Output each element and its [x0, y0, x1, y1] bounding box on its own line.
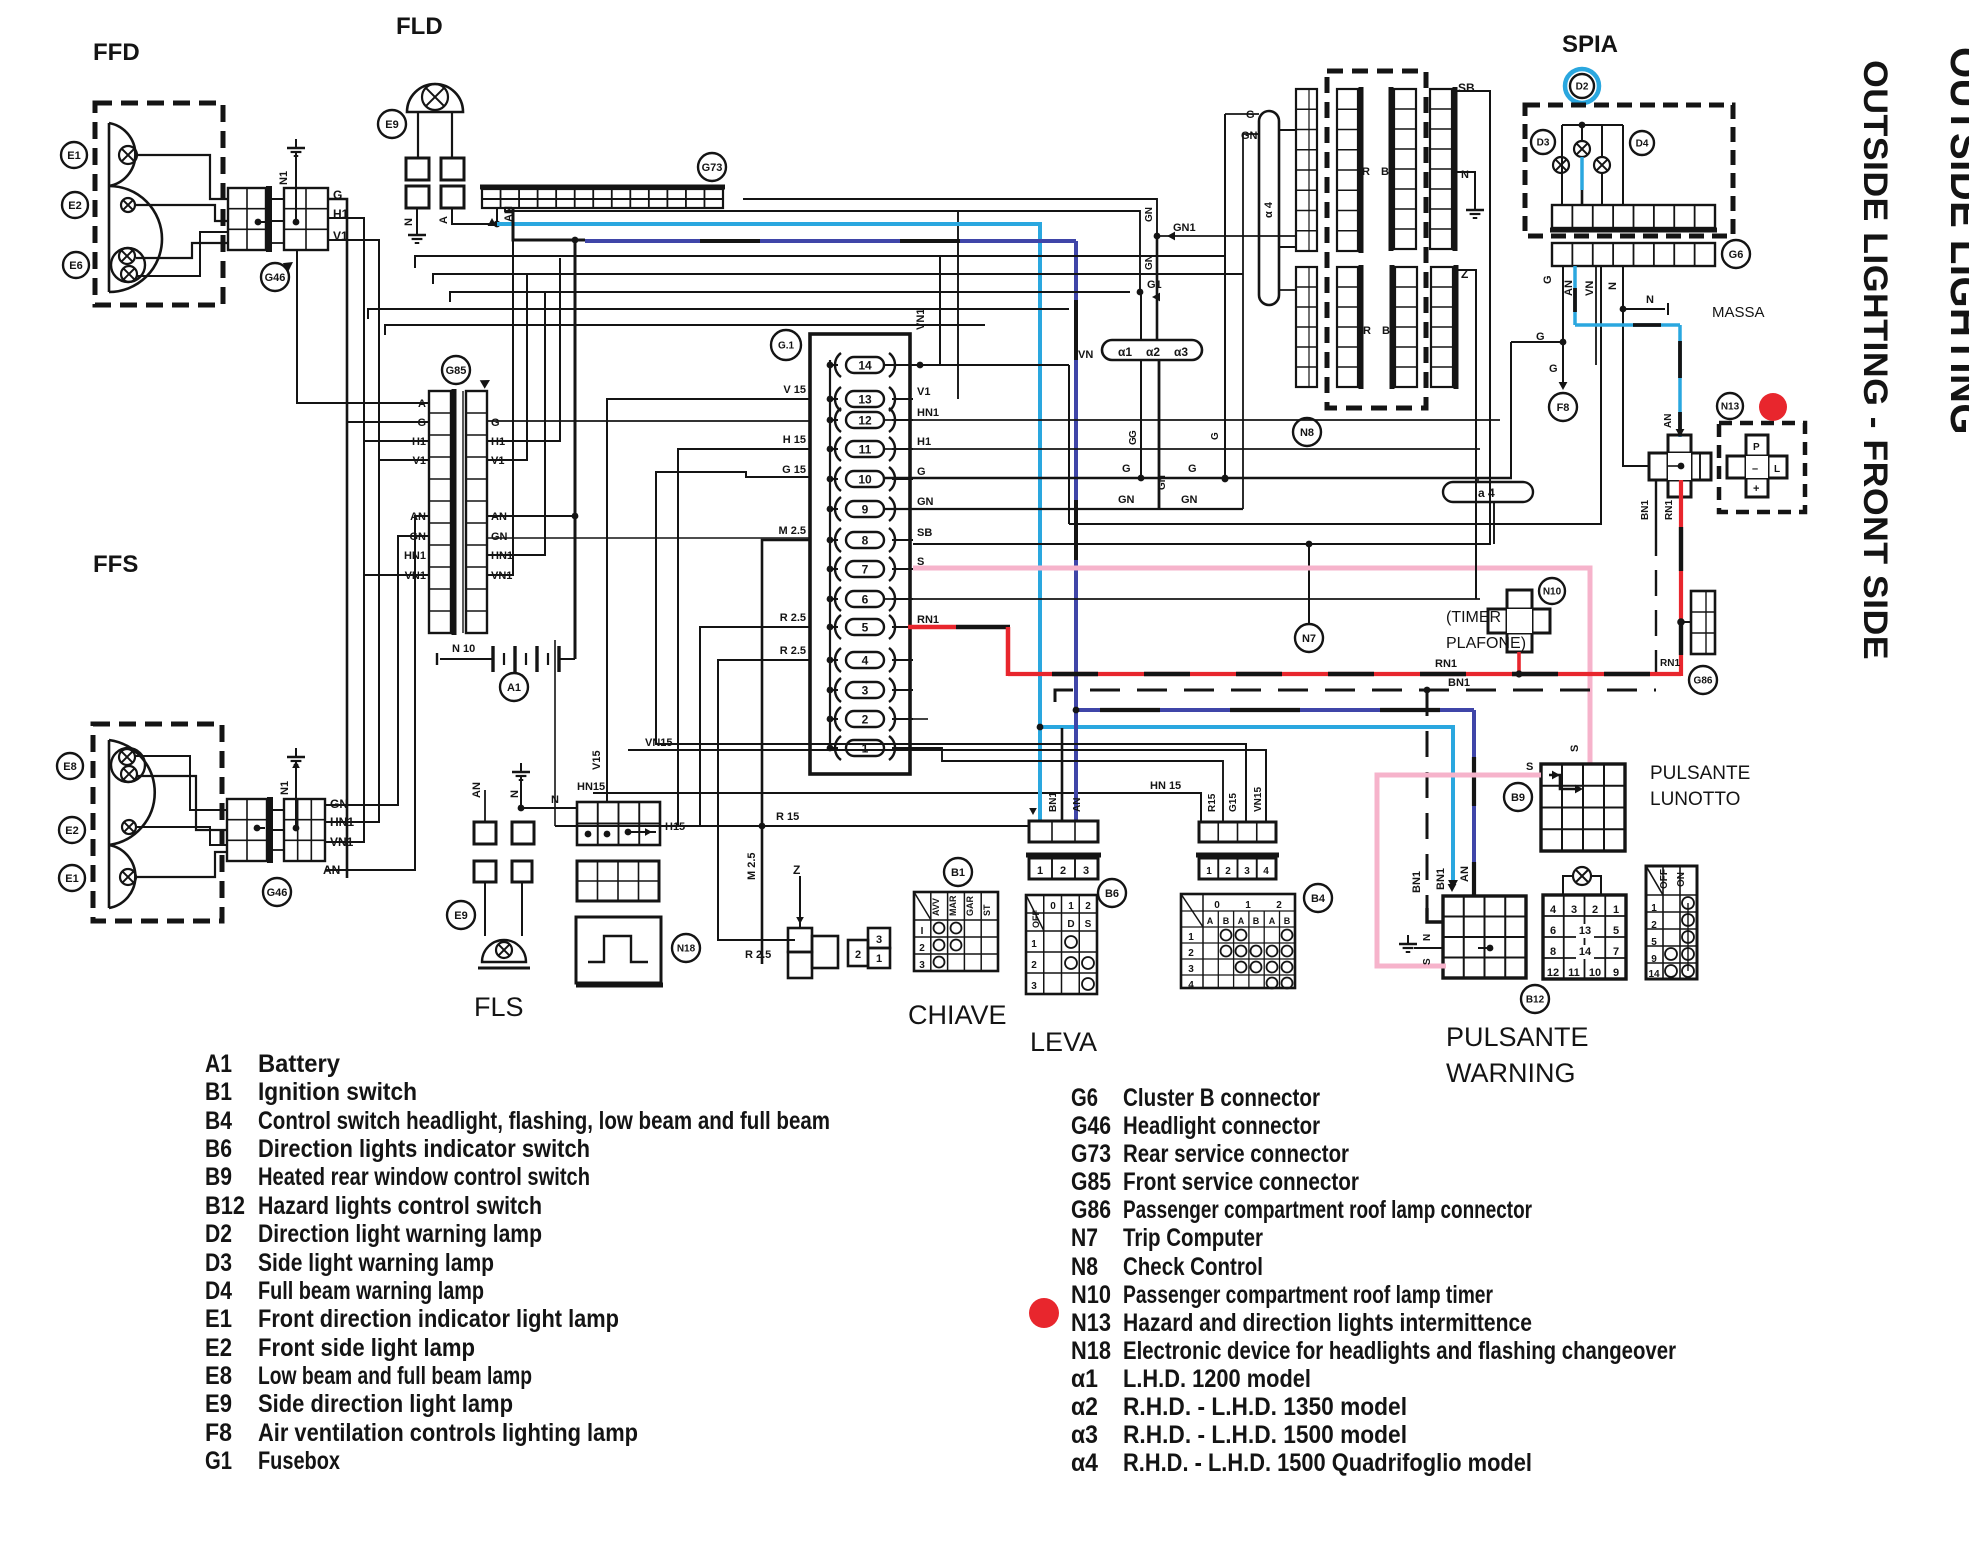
wire lamp right pin: [451, 112, 453, 158]
svg-text:12: 12: [858, 414, 872, 428]
svg-text:G46: G46: [267, 887, 288, 899]
svg-text:a 4: a 4: [1478, 486, 1495, 500]
ref circle E1: [61, 142, 87, 168]
svg-text:4: 4: [1263, 866, 1269, 877]
intermittence feed cross: [1649, 453, 1711, 480]
svg-text:AN: AN: [1072, 798, 1083, 812]
fuse 3: [846, 682, 884, 698]
connector FLD square a: [406, 158, 429, 180]
svg-text:N13: N13: [1071, 1309, 1111, 1337]
wire red N10 stub: [1517, 652, 1521, 674]
svg-text:14: 14: [1579, 946, 1592, 958]
svg-text:3: 3: [1188, 964, 1194, 975]
wire G row: [347, 421, 429, 423]
wire GN1 junction: [1154, 233, 1161, 240]
svg-text:10: 10: [1589, 967, 1601, 979]
wire E2 lower: [136, 827, 227, 845]
wire R2.5 fuse5 feed: [700, 627, 810, 826]
svg-text:N7: N7: [1302, 633, 1316, 645]
svg-text:FLD: FLD: [396, 13, 443, 40]
key small boxes 2/3/1: [848, 940, 868, 966]
svg-text:Headlight connector: Headlight connector: [1123, 1112, 1320, 1140]
svg-text:N10: N10: [1071, 1281, 1111, 1309]
ref circle D3: [1531, 130, 1555, 154]
svg-text:L: L: [1774, 464, 1780, 475]
svg-text:SPIA: SPIA: [1562, 31, 1618, 58]
svg-text:A: A: [1238, 916, 1245, 926]
connector FLD square d: [441, 186, 464, 208]
svg-text:G6: G6: [1071, 1084, 1098, 1112]
wire AN thick vertical: [574, 240, 577, 659]
svg-text:B1: B1: [205, 1078, 232, 1106]
svg-text:RN1: RN1: [1664, 500, 1675, 520]
wire lane H1/VN1: [325, 218, 364, 842]
svg-text:PLAFONE): PLAFONE): [1446, 635, 1526, 652]
svg-text:2: 2: [1188, 948, 1194, 959]
svg-text:N18: N18: [1071, 1337, 1111, 1365]
lamp E2/E6 reflector (semicircle): [109, 186, 162, 292]
wire lane GN: [325, 536, 429, 805]
side lamp FLD housing: [407, 84, 463, 112]
connector FLS square b: [512, 822, 534, 844]
svg-text:0: 0: [1050, 901, 1056, 912]
svg-text:G: G: [491, 417, 500, 429]
fuse 6: [846, 591, 884, 607]
wire y547 right end: [1493, 501, 1495, 544]
svg-text:B: B: [1223, 916, 1230, 926]
ref circle E1 lower: [59, 865, 85, 891]
svg-text:B9: B9: [1511, 792, 1525, 804]
svg-text:D: D: [1067, 919, 1074, 930]
svg-text:B6: B6: [1105, 888, 1119, 900]
svg-text:N: N: [1607, 282, 1619, 290]
svg-text:WARNING: WARNING: [1446, 1058, 1576, 1088]
wire E8b: [137, 776, 227, 830]
svg-text:5: 5: [862, 621, 869, 635]
battery A1 symbol: [440, 658, 493, 660]
svg-text:B4: B4: [205, 1107, 232, 1135]
rear service connector G73 strip: [482, 189, 723, 208]
ref circle E9 lower: [447, 901, 475, 929]
svg-text:1: 1: [1037, 865, 1043, 877]
svg-text:E8: E8: [63, 761, 76, 773]
hazard switch B12 grid2 numbers: [1543, 895, 1626, 979]
svg-text:Hazard lights control switch: Hazard lights control switch: [258, 1192, 542, 1220]
svg-text:V15: V15: [591, 750, 603, 770]
svg-text:B12: B12: [1526, 995, 1545, 1006]
wire N to ground n8: [1452, 172, 1475, 205]
svg-text:1: 1: [1188, 932, 1194, 943]
wire AN row tie: [487, 515, 575, 517]
svg-text:AN: AN: [1459, 866, 1471, 882]
ref circle N10: [1539, 578, 1565, 604]
ref circle B1: [944, 858, 972, 886]
svg-text:AN: AN: [1663, 414, 1674, 428]
wire BN1 below cross: [1655, 480, 1657, 530]
svg-text:3: 3: [1244, 866, 1250, 877]
fuse 10: [846, 471, 884, 487]
fuse 5: [846, 619, 884, 635]
fusebox bus bar: [829, 360, 831, 748]
svg-text:12: 12: [1547, 967, 1559, 979]
svg-text:1: 1: [1068, 901, 1074, 912]
svg-text:R 2.5: R 2.5: [745, 949, 771, 961]
svg-text:Direction lights indicator swi: Direction lights indicator switch: [258, 1135, 590, 1163]
svg-text:G46: G46: [1071, 1112, 1111, 1140]
svg-text:G.1: G.1: [778, 341, 795, 352]
svg-text:FFD: FFD: [93, 39, 140, 66]
wire E1 to connector: [137, 155, 228, 199]
connector alpha4 vertical oval: [1259, 111, 1279, 305]
svg-text:N13: N13: [1721, 402, 1740, 413]
svg-text:9: 9: [862, 503, 869, 517]
lamp E2 bulb: [121, 198, 135, 212]
svg-text:3: 3: [1571, 904, 1577, 916]
flasher device N18 box: [576, 917, 661, 983]
svg-text:R: R: [1362, 166, 1370, 178]
connector FLS mid grid: [577, 861, 659, 901]
fuse 1: [846, 740, 884, 756]
svg-text:LEVA: LEVA: [1030, 1027, 1097, 1057]
connector N8 col C lower: [1395, 267, 1417, 387]
ref circle N13: [1717, 393, 1743, 419]
svg-text:α1: α1: [1118, 345, 1132, 359]
direction indicator connector LEVA: [1029, 821, 1098, 842]
wire R2.5 fuse4 feed: [718, 660, 810, 940]
wire HN1 out: [885, 419, 1500, 421]
svg-text:GN: GN: [491, 531, 508, 543]
svg-text:E9: E9: [454, 910, 467, 922]
wire G row to fuse12: [487, 420, 810, 422]
wire fan y292: [450, 292, 1130, 302]
svg-text:BN1: BN1: [1411, 871, 1423, 893]
wire AN cyan from G6: [1573, 266, 1577, 325]
wire lane G: [328, 199, 347, 878]
connector N8 col C upper: [1394, 89, 1416, 249]
svg-text:α2: α2: [1146, 345, 1160, 359]
svg-text:2: 2: [1592, 904, 1598, 916]
svg-text:GN: GN: [917, 496, 934, 508]
wire A to junction: [452, 208, 497, 224]
svg-text:R 2.5: R 2.5: [780, 645, 806, 657]
svg-text:B12: B12: [205, 1192, 245, 1220]
wire G15 feed: [656, 472, 1246, 821]
svg-text:S: S: [1526, 761, 1533, 773]
ref circle E8: [57, 753, 83, 779]
svg-text:G73: G73: [1071, 1140, 1111, 1168]
svg-text:9: 9: [1651, 954, 1657, 965]
svg-text:2: 2: [1276, 900, 1282, 911]
svg-text:F8: F8: [205, 1419, 232, 1447]
svg-text:GAR: GAR: [965, 896, 975, 917]
svg-text:+: +: [1753, 483, 1759, 495]
node A junction: [494, 221, 501, 228]
wire navy into B12 stub: [1473, 880, 1476, 896]
wire N7 drop: [1308, 544, 1310, 624]
wire fan y256: [415, 256, 1225, 268]
fuse 7: [846, 561, 884, 577]
ref circle B4: [1304, 884, 1332, 912]
svg-text:A: A: [438, 216, 450, 224]
ground above FLS: [520, 763, 522, 772]
front service connector G85 right column: [466, 391, 487, 633]
wire VN pin down: [1595, 266, 1597, 365]
svg-text:R 2.5: R 2.5: [780, 612, 806, 624]
svg-text:S: S: [1569, 745, 1581, 752]
svg-text:Front side light lamp: Front side light lamp: [258, 1334, 475, 1362]
svg-text:2: 2: [1031, 960, 1037, 971]
wire navy AN vertical: [1074, 241, 1078, 821]
svg-text:3: 3: [919, 960, 925, 971]
wire H15 feed: [662, 449, 810, 826]
wire AN black lead-in: [513, 208, 585, 240]
wire E6b to connector: [137, 232, 228, 276]
wire H1 out: [885, 448, 1480, 450]
wire GN bus: [885, 508, 1243, 510]
svg-text:G1: G1: [1147, 279, 1162, 291]
svg-text:I: I: [921, 926, 924, 937]
wire G bus: [885, 477, 1512, 479]
wire GN row to fusebox: [487, 537, 810, 539]
ignition switch table B1: [914, 892, 998, 971]
svg-text:V1: V1: [917, 386, 930, 398]
lamp E2 bulb lower: [122, 820, 136, 834]
svg-text:R 15: R 15: [776, 811, 799, 823]
connector G6 strip: [1552, 243, 1715, 266]
svg-text:G86: G86: [1071, 1196, 1111, 1224]
svg-text:1: 1: [1651, 903, 1657, 914]
wire H1 row riser: [487, 258, 560, 441]
connector B4 1234: [1199, 858, 1276, 879]
svg-text:α3: α3: [1174, 345, 1188, 359]
svg-text:E2: E2: [68, 200, 81, 212]
svg-text:D4: D4: [1636, 139, 1649, 150]
svg-text:ST: ST: [982, 904, 992, 916]
svg-text:VN1: VN1: [915, 309, 927, 330]
svg-text:Rear service connector: Rear service connector: [1123, 1140, 1349, 1168]
svg-text:OUTSIDE LIGHTING - FRONT SIDE: OUTSIDE LIGHTING - FRONT SIDE: [1856, 60, 1894, 660]
svg-text:N: N: [509, 790, 521, 798]
wire GN1 vertical: [1156, 236, 1159, 341]
svg-text:0: 0: [1214, 900, 1220, 911]
svg-text:Full beam warning lamp: Full beam warning lamp: [258, 1277, 484, 1305]
ref circle B6: [1098, 879, 1126, 907]
warning lamp cluster dashed box: [1525, 105, 1733, 236]
svg-text:PULSANTE: PULSANTE: [1446, 1022, 1589, 1052]
wire fls sq to lamp b: [521, 882, 523, 936]
svg-text:4: 4: [1188, 980, 1194, 991]
svg-text:P: P: [1753, 442, 1760, 453]
svg-text:5: 5: [1613, 925, 1619, 937]
svg-text:Passenger compartment roof lam: Passenger compartment roof lamp connecto…: [1123, 1196, 1532, 1224]
svg-text:D2: D2: [205, 1220, 232, 1248]
headlight control connector B4: [1199, 822, 1276, 842]
wire AN cyan down: [1678, 325, 1682, 437]
svg-text:B: B: [1284, 916, 1291, 926]
svg-text:R: R: [1363, 325, 1371, 337]
svg-text:Side light warning lamp: Side light warning lamp: [258, 1249, 494, 1277]
heated window switch B9 grid: [1541, 764, 1625, 851]
svg-text:1: 1: [1206, 866, 1212, 877]
wire alpha4 to col: [1279, 129, 1296, 131]
svg-text:A1: A1: [507, 682, 521, 694]
svg-text:B: B: [1381, 166, 1389, 178]
svg-text:CHIAVE: CHIAVE: [908, 1000, 1007, 1030]
wire VN return line: [1069, 266, 1601, 524]
svg-text:Front service connector: Front service connector: [1123, 1168, 1359, 1196]
wire VN1 row riser: [487, 208, 513, 575]
wire G pin down: [1562, 266, 1564, 385]
svg-text:G: G: [1246, 109, 1255, 121]
svg-text:MASSA: MASSA: [1712, 304, 1765, 321]
svg-text:Electronic device for headligh: Electronic device for headlights and fla…: [1123, 1337, 1676, 1365]
svg-text:7: 7: [1613, 946, 1619, 958]
wires FFS block link: [273, 809, 284, 811]
svg-text:6: 6: [1550, 925, 1556, 937]
svg-text:LUNOTTO: LUNOTTO: [1650, 789, 1740, 810]
svg-text:A1: A1: [205, 1050, 232, 1078]
svg-text:α 4: α 4: [1263, 201, 1275, 218]
svg-text:S: S: [1085, 919, 1092, 930]
wire cyan A-line: [497, 224, 1040, 821]
svg-text:2: 2: [862, 713, 869, 727]
svg-text:G: G: [1549, 363, 1558, 375]
lamp E8 reflector: [109, 740, 155, 845]
ref circle N8: [1293, 418, 1321, 446]
svg-text:B6: B6: [205, 1135, 232, 1163]
wire cyan branch to B12: [1040, 727, 1453, 886]
ref circle G6: [1722, 240, 1750, 268]
svg-text:2: 2: [919, 943, 925, 954]
svg-text:N: N: [1461, 169, 1469, 181]
connector small 3cell: [1691, 591, 1715, 654]
wire Z line: [1453, 270, 1476, 599]
fuse 14: [846, 357, 884, 373]
ref circle G1: [771, 330, 801, 360]
wire G1 vertical: [1140, 292, 1142, 341]
svg-text:BN1: BN1: [1048, 792, 1059, 812]
front service connector G85 left column: [429, 391, 451, 633]
svg-text:GN: GN: [1181, 494, 1198, 506]
svg-text:1: 1: [1031, 939, 1037, 950]
wire lane V1/HN1: [325, 240, 379, 822]
ref circle G86: [1689, 666, 1717, 694]
svg-text:E8: E8: [205, 1362, 232, 1390]
svg-text:OFF: OFF: [1659, 869, 1670, 889]
wire fan y325: [385, 325, 985, 335]
svg-text:HN1: HN1: [917, 407, 939, 419]
svg-text:GN: GN: [1118, 494, 1135, 506]
wire R15 pin feed: [913, 748, 1223, 821]
wire navy down to B12: [1472, 710, 1476, 895]
svg-text:VN: VN: [1078, 349, 1093, 361]
ground N1 above G46 connector: [295, 139, 297, 148]
wire HN15 line: [593, 793, 1201, 821]
svg-text:3: 3: [862, 684, 869, 698]
wire red RN1 start: [908, 625, 956, 630]
svg-text:RN1: RN1: [1660, 658, 1680, 669]
svg-text:G85: G85: [446, 365, 467, 377]
ref circle N7: [1295, 624, 1323, 652]
wire N to ground: [416, 208, 418, 231]
wire red/black BN1 horizontal: [1008, 672, 1653, 676]
lamp E1 bulb: [119, 146, 137, 164]
wire GN vertical 1243: [1242, 134, 1244, 509]
svg-text:V 15: V 15: [783, 384, 806, 396]
fuse 12: [846, 412, 884, 428]
lamp D4 bulb: [1594, 157, 1610, 173]
svg-text:N10: N10: [1543, 587, 1562, 598]
svg-text:GN: GN: [1144, 207, 1155, 222]
connector FFS block1: [227, 799, 267, 861]
connector FLS square d: [512, 861, 532, 882]
svg-text:BN1: BN1: [1640, 500, 1651, 520]
svg-text:GN: GN: [1157, 475, 1168, 490]
wire fls sq to lamp a: [484, 882, 486, 936]
wire HN1 row riser: [487, 292, 545, 555]
svg-text:4: 4: [862, 654, 869, 668]
lamp E8 twin bulb: [111, 748, 145, 782]
svg-text:B: B: [1382, 325, 1390, 337]
svg-text:N1: N1: [278, 171, 290, 185]
ref circle E2 lower: [59, 817, 85, 843]
svg-text:D3: D3: [205, 1249, 232, 1277]
side lamp E9 lower: [482, 940, 526, 962]
svg-text:HN 15: HN 15: [1150, 780, 1181, 792]
red dot N13: [1759, 393, 1787, 421]
svg-text:Control switch headlight, flas: Control switch headlight, flashing, low …: [258, 1107, 830, 1135]
wire AN cyan horizontal: [1575, 323, 1680, 327]
svg-text:3: 3: [1083, 865, 1089, 877]
svg-text:Hazard and direction lights in: Hazard and direction lights intermittenc…: [1123, 1309, 1532, 1337]
svg-text:5: 5: [1651, 937, 1657, 948]
ground into B12: [1407, 935, 1409, 944]
svg-text:D3: D3: [1537, 138, 1550, 149]
wire D2 cyan segment: [1580, 157, 1584, 190]
ref circle E9 top: [378, 110, 406, 138]
svg-text:G46: G46: [265, 272, 286, 284]
connector FLD square b: [441, 158, 464, 180]
wire V1 row: [379, 459, 429, 461]
wire GN into alpha4: [1243, 133, 1259, 135]
wire fuse2 stub: [913, 718, 928, 720]
lamp D3 bulb: [1553, 157, 1569, 173]
ref circle G73: [698, 153, 726, 181]
svg-text:A: A: [1207, 916, 1214, 926]
svg-text:α3: α3: [1071, 1421, 1098, 1449]
wire N massa stub: [1623, 308, 1665, 310]
svg-text:Low beam and full beam lamp: Low beam and full beam lamp: [258, 1362, 532, 1390]
wire N pin down: [1623, 266, 1649, 466]
fuse 2: [846, 711, 884, 727]
connector alpha123 oval: [1102, 340, 1202, 360]
svg-text:(TIMER: (TIMER: [1446, 609, 1501, 626]
svg-text:GN: GN: [1144, 255, 1155, 270]
svg-text:H15: H15: [665, 821, 685, 833]
svg-text:E9: E9: [385, 119, 398, 131]
svg-text:Side direction light lamp: Side direction light lamp: [258, 1390, 513, 1418]
svg-text:M 2.5: M 2.5: [778, 525, 806, 537]
svg-text:F8: F8: [1557, 402, 1570, 414]
svg-text:N1: N1: [279, 781, 291, 795]
svg-text:N 10: N 10: [452, 643, 475, 655]
svg-text:14: 14: [1648, 969, 1660, 980]
fuse 11: [846, 441, 884, 457]
wire G73 top line to GN1: [482, 198, 723, 200]
wire pink into B12: [1377, 964, 1446, 969]
svg-text:G 15: G 15: [782, 464, 806, 476]
connector N8 col D upper: [1430, 89, 1452, 249]
